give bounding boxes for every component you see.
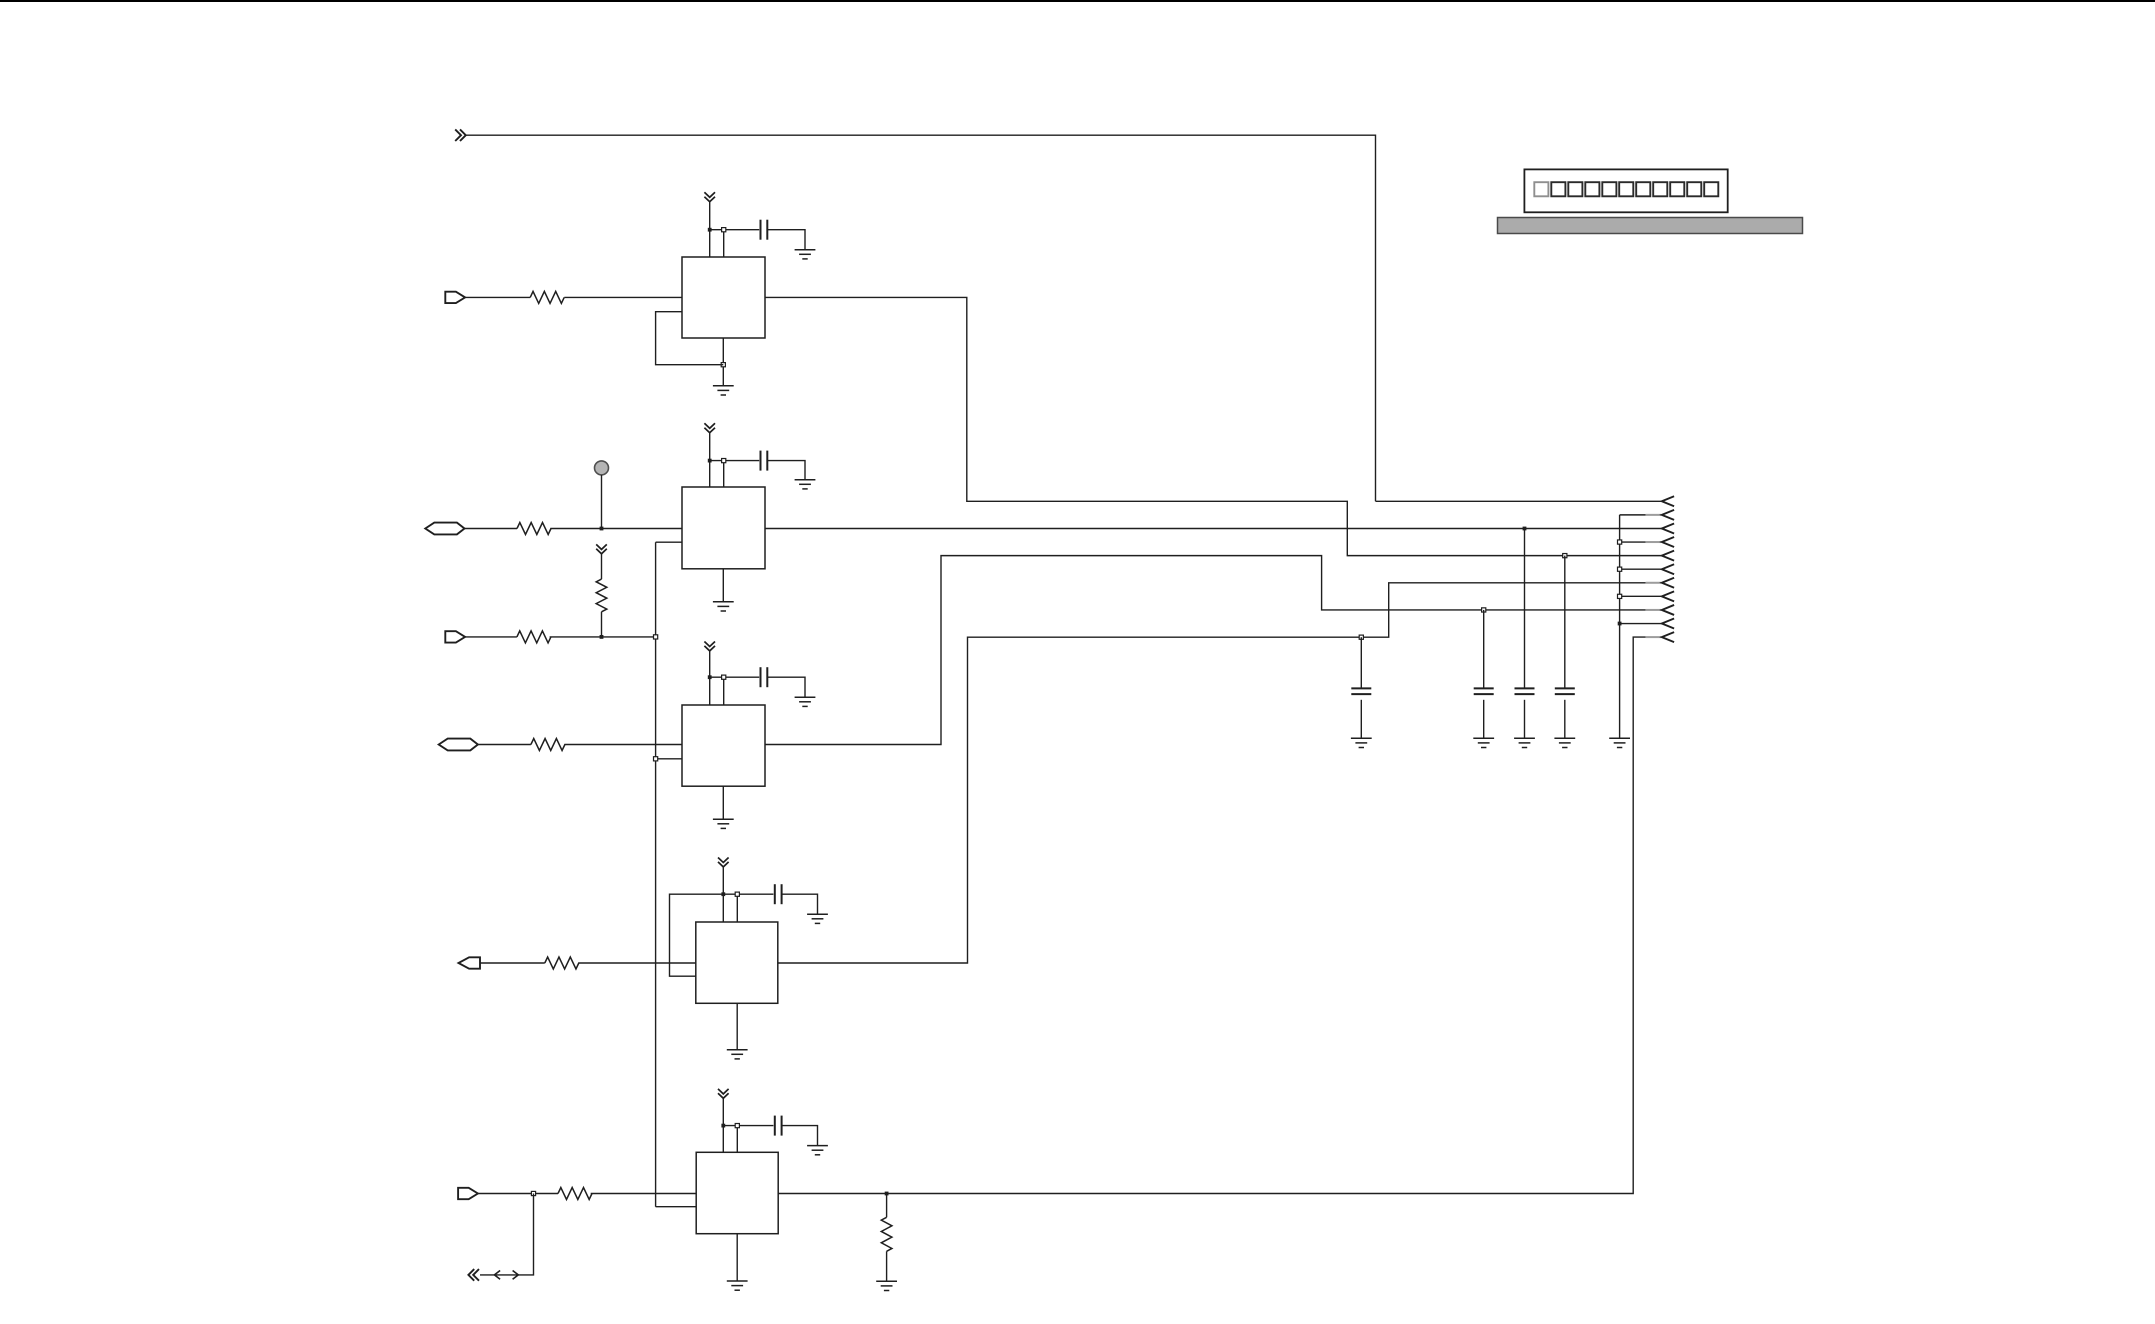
ground - C9 (1554, 738, 1575, 747)
ground - C1 (795, 250, 816, 259)
port P11 arrowhead (1662, 632, 1674, 642)
node - bottom stub junction (531, 1191, 535, 1195)
wire - bottom harness stub (480, 1194, 534, 1275)
wire - U1 input (564, 296, 682, 298)
wire - U1 feedback loop (656, 312, 724, 365)
IC U5 (696, 1152, 778, 1233)
ground - bus (1609, 738, 1630, 747)
port P1 arrowhead (1662, 496, 1674, 506)
wire - U4 feedback loop (670, 894, 724, 976)
wire - U1 output to row5 (via risers) (765, 297, 1662, 555)
resistor R5 (U4 input series) (545, 957, 579, 969)
node - bus row8 (1618, 594, 1622, 598)
gray port lead row11 (1646, 636, 1661, 638)
wire - C6 bottom lead (1360, 700, 1362, 739)
wire - U1 VCC vertical (709, 202, 711, 257)
wire - circle stem to input wire (601, 475, 603, 529)
wire - C6 top lead (1360, 637, 1362, 688)
gray port lead row2 (1646, 514, 1661, 516)
wire - C9 bottom lead (1564, 700, 1566, 739)
wire - top rail from chevron to right riser then down to row1 (466, 135, 1376, 501)
node - U5 VCC junction (721, 1124, 725, 1128)
harness chevron << at bottom left (468, 1269, 479, 1281)
wire - C8 bottom lead (1524, 700, 1526, 739)
port P_IN1 (input pin) (445, 292, 465, 303)
node - W7 cap tap (1359, 635, 1363, 639)
NC ball (gray circle) (595, 461, 609, 475)
wire - P_IN2 to R2 (465, 528, 518, 530)
node - U1 feedback junction (721, 363, 725, 367)
wire - ground bus vertical (1619, 515, 1621, 738)
node - U2 stub junction (722, 459, 726, 463)
resistor R6 (U5 input series) (558, 1188, 592, 1200)
ground - U3 (713, 819, 734, 828)
ground - R8 (876, 1281, 897, 1290)
gray port lead row9 (1646, 609, 1661, 611)
wire - U4 pin stub (736, 894, 738, 922)
node - U4 VCC junction (721, 892, 725, 896)
wire - U3 pin2 from long vertical (656, 758, 682, 760)
node - U3 pin2 junction (654, 757, 658, 761)
ground - U1 (713, 386, 734, 395)
VCC power symbol for U5 (718, 1089, 729, 1098)
top border bar (0, 0, 2155, 2)
port P_IN5 (input pin) (458, 1188, 478, 1199)
connector J1 shroud (gray bar) (1498, 218, 1803, 234)
wire - U5 VCC vertical (722, 1098, 724, 1152)
wire - C8 top lead (1524, 529, 1526, 689)
port P_IN2 (bidirectional pin) (425, 523, 464, 535)
node - U3 stub junction (722, 675, 726, 679)
wire - pulldown bottom lead (886, 1251, 888, 1281)
wire - U4 VCC vertical (722, 867, 724, 922)
wire - U3 pin stub (723, 677, 725, 705)
wire - U2 bottom pin to ground (722, 569, 724, 602)
wire - U5 pin stub (736, 1126, 738, 1153)
wire - U2 input (550, 528, 682, 530)
wire - U4 input (578, 962, 696, 964)
node - control/pullup junction (600, 635, 604, 639)
IC U4 (696, 922, 778, 1003)
wire - U4 VCC cap tap horizontal (723, 893, 773, 895)
capacitor C4 (U4 decoupling) (775, 884, 782, 904)
IC U2 (682, 487, 765, 569)
wire - P_OUT1 to R5 (480, 962, 545, 964)
port P2 arrowhead (1662, 510, 1674, 520)
resistor R8 (pulldown) (881, 1217, 892, 1251)
off-page connector chevron >> (net TOPRAIL) (455, 129, 466, 141)
resistor R4 (U3 input series) (531, 739, 565, 751)
port P5 arrowhead (1662, 551, 1674, 561)
wire - pullup bottom lead (601, 612, 603, 637)
resistor R7 (pullup) (596, 579, 607, 612)
port P10 arrowhead (1662, 619, 1674, 629)
wire - U3 input (564, 744, 682, 746)
port P_OUT1 (output pin, points left) (459, 957, 481, 968)
wire - bus lead row10 (1620, 623, 1662, 625)
ground - C2 (795, 480, 816, 489)
connector J1 body (11-position header) (1524, 169, 1727, 212)
ground - C8 (1514, 738, 1535, 747)
wire - C3 to ground (767, 677, 805, 697)
wire - control net long vertical (655, 542, 657, 1206)
port P9 arrowhead (1662, 605, 1674, 615)
wire - bus lead row2 (1620, 514, 1646, 516)
wire - U1 VCC cap tap horizontal (710, 229, 760, 231)
wire - U5 input (591, 1193, 697, 1195)
wire - C1 to ground (767, 230, 805, 250)
wire - bus lead row8 (1620, 595, 1662, 597)
ground - C4 (807, 914, 828, 923)
wire - U1 pin stub (723, 230, 725, 257)
capacitor C9 (1555, 688, 1575, 694)
wire - row1 horizontal into port P1 (1376, 500, 1662, 502)
wire - U2 output row3 (765, 528, 1662, 530)
capacitor C7 (1474, 688, 1494, 694)
resistor R2 (U2 input series) (517, 523, 551, 535)
node - bus row4 (1618, 540, 1622, 544)
wire - C4 to ground (782, 894, 818, 914)
node - control net junction on long vertical (654, 635, 658, 639)
wire - U2 pin stub (723, 461, 725, 487)
wire - C9 top lead (1564, 556, 1566, 689)
capacitor C5 (U5 decoupling) (775, 1116, 782, 1136)
wire - P_IN4 to R4 (478, 744, 531, 746)
capacitor C8 (1515, 688, 1535, 694)
wire - U2 pin2 to long vertical (656, 541, 682, 543)
ground - U5 (727, 1281, 748, 1290)
capacitor C1 (U1 decoupling) (761, 220, 768, 240)
port P_IN4 (bidirectional pin) (439, 739, 478, 751)
gray port lead row7 (1646, 582, 1661, 584)
wire - P_IN5 to R6 (478, 1193, 558, 1195)
ground - C5 (807, 1146, 828, 1155)
wire - U2 VCC vertical (709, 433, 711, 487)
node - U3 VCC junction (708, 675, 712, 679)
wire - U5 VCC cap tap horizontal (723, 1125, 773, 1127)
node - row9 cap tap (1482, 608, 1486, 612)
ground - C3 (795, 697, 816, 706)
node - bus row10 (1618, 622, 1622, 626)
wire - pulldown top lead (886, 1194, 888, 1218)
port P7 arrowhead (1662, 578, 1674, 588)
wire - P_IN1 to R1 (465, 296, 530, 298)
wire - U4 bottom pin to ground (736, 1003, 738, 1049)
capacitor C2 (U2 decoupling) (761, 451, 768, 471)
capacitor C6 (1351, 688, 1371, 694)
wire - U1 bottom pin to ground (722, 338, 724, 386)
port P8 arrowhead (1662, 591, 1674, 601)
port P_IN3 (input pin) (445, 631, 465, 642)
wire - control input row (550, 636, 656, 638)
VCC power symbol for U2 (704, 423, 715, 432)
port P4 arrowhead (1662, 537, 1674, 547)
node - junction on U2 input (600, 527, 604, 531)
resistor R1 (U1 input series) (530, 291, 564, 303)
IC U1 (682, 257, 765, 338)
power symbol for pullup R7 (596, 544, 607, 553)
arrow mark right on harness stub (513, 1271, 519, 1280)
wire - P_IN3 to R3 (465, 636, 517, 638)
port P3 arrowhead (1662, 523, 1674, 533)
wire - C7 top lead (1483, 610, 1485, 688)
node - U1 stub junction (722, 228, 726, 232)
wire - pullup top lead (601, 554, 603, 579)
wire - U5 bottom pin to ground (736, 1234, 738, 1281)
VCC power symbol for U4 (718, 858, 729, 867)
wire - U5 pin2 from long vertical (656, 1206, 697, 1208)
node - pulldown junction (885, 1192, 889, 1196)
node - U2 VCC junction (708, 459, 712, 463)
wire - bus lead row4 (1620, 541, 1646, 543)
ground - C7 (1473, 738, 1494, 747)
wire - U5 output to row11 (778, 637, 1645, 1193)
IC U3 (682, 705, 765, 786)
gray port lead row4 (1646, 541, 1661, 543)
wire - U3 bottom pin to ground (722, 786, 724, 819)
VCC power symbol for U1 (704, 192, 715, 201)
capacitor C3 (U3 decoupling) (761, 667, 768, 687)
node - U5 stub junction (735, 1124, 739, 1128)
wire - C7 bottom lead (1483, 700, 1485, 739)
node - row5 cap tap (1563, 554, 1567, 558)
node - U1 VCC junction (708, 228, 712, 232)
wire - U3 VCC cap tap horizontal (710, 676, 760, 678)
wire - U2 VCC cap tap horizontal (710, 460, 760, 462)
ground - C6 (1351, 738, 1372, 747)
ground - U4 (727, 1050, 748, 1059)
node - row3 cap tap (1523, 527, 1527, 531)
node - bus row6 (1618, 567, 1622, 571)
ground - U2 (713, 602, 734, 611)
resistor R3 (control input series) (517, 631, 551, 643)
wire - U4 output to row7 (778, 583, 1646, 963)
wire - U3 VCC vertical (709, 651, 711, 705)
port P6 arrowhead (1662, 564, 1674, 574)
wire - U3 output to row9 (765, 556, 1646, 745)
wire - C2 to ground (767, 461, 805, 480)
wire - bus lead row6 (1620, 568, 1662, 570)
node - U4 stub junction (735, 892, 739, 896)
arrow mark left on harness stub (494, 1271, 500, 1280)
wire - C5 to ground (782, 1126, 818, 1146)
VCC power symbol for U3 (704, 642, 715, 651)
